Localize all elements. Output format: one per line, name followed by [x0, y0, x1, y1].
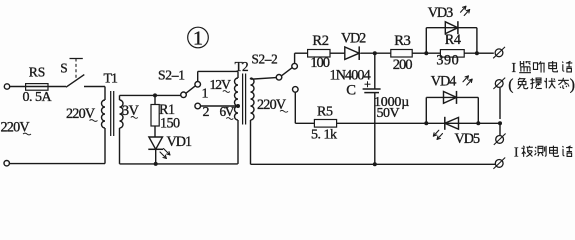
svg-text:VD3: VD3 [428, 5, 453, 21]
svg-text:VD2: VD2 [341, 31, 366, 47]
svg-text:R5: R5 [317, 105, 333, 120]
svg-text:50V: 50V [377, 106, 400, 121]
svg-text:1: 1 [202, 87, 209, 102]
svg-text:R4: R4 [445, 32, 461, 48]
svg-text:150: 150 [160, 115, 180, 131]
svg-text:390: 390 [436, 53, 459, 69]
svg-text:1N4004: 1N4004 [330, 68, 371, 84]
svg-text:VD5: VD5 [455, 131, 480, 147]
svg-text:2: 2 [203, 105, 210, 120]
svg-text:S2–1: S2–1 [158, 67, 185, 82]
svg-text:5. 1k: 5. 1k [311, 128, 337, 143]
svg-text:I: I [514, 144, 519, 159]
svg-text:C: C [346, 83, 356, 99]
svg-text:T2: T2 [235, 59, 248, 74]
svg-text:VD4: VD4 [431, 73, 456, 89]
svg-text:100: 100 [310, 55, 329, 71]
svg-text:12V: 12V [210, 77, 232, 92]
svg-text:6V: 6V [220, 104, 235, 119]
svg-text:1: 1 [193, 27, 203, 49]
svg-text:RS: RS [29, 64, 46, 79]
svg-text:): ) [570, 76, 575, 93]
svg-text:T1: T1 [104, 71, 119, 86]
svg-text:(: ( [508, 76, 513, 93]
svg-text:VD1: VD1 [167, 134, 192, 150]
svg-text:R2: R2 [312, 33, 328, 49]
svg-text:0. 5A: 0. 5A [23, 90, 53, 105]
svg-text:R3: R3 [394, 33, 410, 49]
svg-text:200: 200 [393, 57, 412, 73]
svg-text:S: S [60, 60, 67, 75]
svg-text:I: I [512, 60, 517, 75]
svg-text:S2–2: S2–2 [252, 51, 278, 66]
